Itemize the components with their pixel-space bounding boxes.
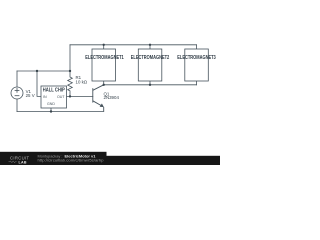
svg-text:IN: IN (43, 95, 47, 99)
junction node base / R1 bottom (69, 95, 71, 97)
junction node collector rail electromagnet2 (149, 84, 151, 86)
junction node ground at hall GND (50, 110, 52, 112)
junction node top rail electromagnet1 (103, 44, 105, 46)
label R1 10 kOhm (76, 75, 88, 85)
svg-text:LAB: LAB (19, 160, 27, 164)
label V1 25 V (26, 89, 35, 98)
watermark CircuitLab logo (9, 156, 30, 165)
wire V1 bottom lead (16, 99, 18, 112)
wire ground rail (17, 111, 104, 113)
wire hall GND stub (50, 108, 52, 112)
electromagnet1 box (85, 49, 124, 81)
wire R1 column riser (69, 45, 71, 71)
svg-text:ELECTROMAGNET1: ELECTROMAGNET1 (85, 55, 124, 61)
junction node top rail electromagnet2 (149, 44, 151, 46)
wire top-left horizontal (17, 70, 70, 72)
junction node R1 top (69, 70, 71, 72)
voltage source V1 (11, 87, 23, 99)
svg-text:ELECTROMAGNET3: ELECTROMAGNET3 (177, 55, 216, 61)
electromagnet2 box (131, 49, 170, 81)
svg-text:GND: GND (47, 102, 55, 106)
hall sensor HALL CHIP (41, 86, 67, 108)
junction node top-left at hall IN (36, 70, 38, 72)
resistor R1 (68, 71, 73, 96)
label Q1 2N3904 (104, 91, 120, 100)
svg-text:HALL CHIP: HALL CHIP (43, 87, 66, 93)
watermark title text (38, 155, 104, 163)
wire hall IN drop (37, 71, 41, 96)
wire hall OUT to base (67, 95, 93, 97)
transistor Q1 (93, 85, 104, 112)
wire stub electromagnet2 bottom (149, 81, 151, 85)
svg-text:10 kΩ: 10 kΩ (76, 79, 88, 84)
svg-text:25 V: 25 V (26, 93, 35, 98)
wire stub electromagnet2 top (149, 45, 151, 49)
wire V1 top lead (16, 71, 18, 87)
wire electromagnet bottom rail (104, 84, 197, 86)
svg-text:http://circuitlab.com/c/6mwr5s: http://circuitlab.com/c/6mwr5s/arhp (38, 158, 104, 162)
junction node collector rail electromagnet1 (103, 84, 105, 86)
wire stub electromagnet3 bottom (196, 81, 198, 85)
wire stub electromagnet1 bottom (103, 81, 105, 85)
electromagnet3 box (177, 49, 216, 81)
watermark band (0, 152, 220, 165)
svg-text:ELECTROMAGNET2: ELECTROMAGNET2 (131, 55, 170, 61)
svg-text:OUT: OUT (57, 95, 65, 99)
svg-text:2N3904: 2N3904 (104, 95, 120, 100)
wire stub electromagnet1 top (103, 45, 105, 49)
wire top supply rail (70, 44, 197, 46)
wire stub electromagnet3 top (196, 45, 198, 49)
